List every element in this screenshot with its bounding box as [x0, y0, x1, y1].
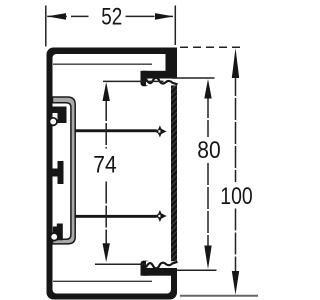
svg-text:100: 100	[220, 183, 252, 210]
svg-text:52: 52	[101, 3, 122, 30]
svg-text:80: 80	[197, 137, 220, 164]
svg-text:74: 74	[93, 152, 116, 179]
